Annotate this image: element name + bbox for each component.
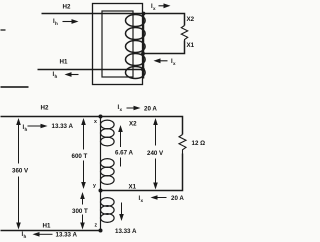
svg-text:h: h (24, 234, 27, 239)
svg-text:h: h (25, 127, 28, 132)
svg-text:z: z (95, 223, 98, 229)
svg-text:x: x (173, 61, 176, 66)
svg-text:13.33 A: 13.33 A (52, 123, 74, 130)
svg-text:x: x (153, 6, 156, 11)
svg-text:x: x (141, 198, 144, 203)
svg-text:y: y (93, 183, 96, 189)
svg-text:12 Ω: 12 Ω (192, 140, 206, 147)
svg-text:600 T: 600 T (72, 153, 88, 160)
svg-text:X1: X1 (129, 184, 137, 191)
svg-text:X2: X2 (187, 16, 195, 23)
svg-text:X1: X1 (187, 42, 195, 49)
svg-text:h: h (55, 21, 58, 26)
svg-text:13.33 A: 13.33 A (115, 228, 137, 235)
svg-text:x: x (94, 119, 97, 125)
svg-text:h: h (55, 74, 58, 79)
svg-text:300 T: 300 T (72, 208, 88, 215)
svg-text:6.67 A: 6.67 A (115, 150, 134, 157)
svg-text:H2: H2 (63, 4, 71, 11)
svg-text:20 A: 20 A (144, 106, 157, 113)
svg-text:13.33 A: 13.33 A (56, 232, 78, 239)
svg-text:H1: H1 (60, 59, 68, 66)
svg-text:x: x (120, 107, 123, 112)
svg-text:H2: H2 (41, 105, 49, 112)
svg-text:240 V: 240 V (147, 150, 164, 157)
svg-text:360 V: 360 V (12, 168, 29, 175)
svg-text:X2: X2 (129, 121, 137, 128)
svg-text:H1: H1 (43, 223, 51, 230)
svg-text:20 A: 20 A (171, 195, 184, 202)
